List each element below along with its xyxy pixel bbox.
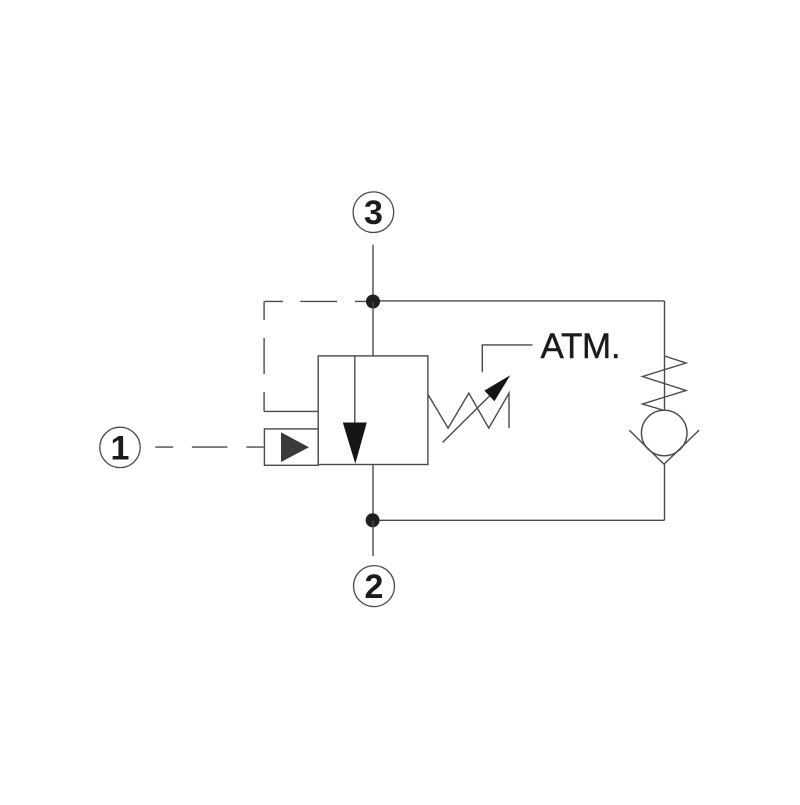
port circle 1	[100, 427, 140, 467]
svg-text:2: 2	[365, 568, 384, 606]
wire: dashed pilot line from port 1 to actuator	[155, 446, 263, 448]
node B junction dot	[366, 513, 380, 527]
wire: node B down to port 2	[372, 520, 374, 556]
svg-text:ATM.: ATM.	[541, 327, 621, 366]
adjustment arrowhead	[484, 375, 510, 401]
valve body V1	[318, 356, 428, 465]
check valve ball	[641, 410, 687, 456]
wire: pilot dashed horizontal from node A to left corner	[264, 300, 366, 302]
spring (relief setting)	[428, 393, 509, 428]
wire: check valve lower vertical	[664, 464, 666, 520]
wire: port 3 down to node A	[372, 245, 374, 301]
port circle 3	[353, 192, 394, 233]
wire: node A down to valve body	[372, 302, 374, 356]
node A junction dot	[366, 295, 380, 309]
wire: pilot dashed vertical left leg	[263, 301, 265, 411]
check valve spring	[643, 356, 687, 411]
port circle 2	[354, 566, 395, 607]
valve internal flow line	[354, 356, 356, 423]
pilot actuator triangle	[281, 432, 309, 462]
wire: node A right to check valve branch	[373, 300, 665, 302]
valve internal arrow (flow to port 2)	[343, 423, 367, 464]
ATM leader line	[482, 345, 532, 372]
wire: check valve upper vertical (through spring)	[664, 301, 666, 411]
pilot actuator box	[264, 429, 318, 465]
adjustment arrow shaft	[443, 395, 492, 443]
svg-text:3: 3	[364, 194, 383, 232]
check valve seat	[629, 430, 699, 464]
svg-text:1: 1	[111, 429, 130, 467]
wire: pilot solid into valve left side	[264, 410, 318, 412]
wire: bottom horizontal to node B	[373, 519, 665, 521]
wire: valve bottom to node B	[372, 465, 374, 521]
